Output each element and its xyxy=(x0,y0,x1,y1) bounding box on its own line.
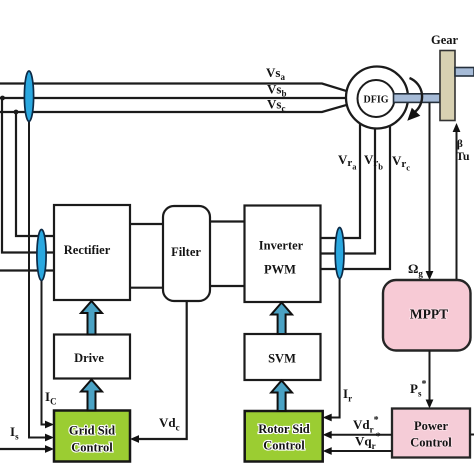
svg-text:Drive: Drive xyxy=(74,351,104,365)
gear box xyxy=(440,51,455,121)
wire phase b drop to rectifier input 2 xyxy=(2,98,54,253)
rectifier box xyxy=(54,205,130,300)
svg-text:DFIG: DFIG xyxy=(364,95,389,106)
rotor side control box xyxy=(245,411,323,462)
power control box xyxy=(392,409,470,458)
SVM box xyxy=(245,334,321,380)
junction dot phase b tap xyxy=(0,96,5,101)
wire rotor phase c from inverter xyxy=(321,109,391,270)
wire stator phase c (Vsc) xyxy=(0,105,347,112)
arrowhead Vdr* xyxy=(323,431,332,439)
wire Ps* from MPPT to Power Control xyxy=(429,351,431,402)
block arrow SVM to Inverter PWM xyxy=(271,303,292,335)
wire Vqr* from Power Control to Rotor Side Control xyxy=(330,450,392,452)
svg-text:Inverter: Inverter xyxy=(259,239,304,253)
svg-text:Control: Control xyxy=(263,439,305,453)
sensor ellipse stator current (Is transducer) xyxy=(24,71,33,121)
arrowhead omega g into MPPT xyxy=(426,271,434,280)
wire dc link rectifier-filter top xyxy=(130,223,163,225)
junction dot rotor b xyxy=(373,114,378,119)
arrowhead Ir into Rotor Side Control xyxy=(323,414,332,422)
sensor ellipse rotor current (Ir transducer) xyxy=(335,228,344,279)
svg-text:PWM: PWM xyxy=(264,263,296,277)
arrowhead Ps* into Power Control xyxy=(426,400,434,409)
wire rectifier input 3 from left edge xyxy=(0,269,54,271)
arrowhead third input xyxy=(45,445,54,453)
block arrow Drive to Rectifier xyxy=(81,301,102,335)
svg-text:Rotor Sid: Rotor Sid xyxy=(258,422,310,436)
DFIG outer circle (stator) xyxy=(346,67,408,129)
wire rotor phase b from inverter xyxy=(321,117,376,254)
arrowhead Is into Grid Side Control xyxy=(45,434,54,442)
wire Vdr* from Power Control to Rotor Side Control xyxy=(330,434,392,436)
wire third input into Grid Side Control from left edge xyxy=(0,448,47,450)
wire Ir sensing line from rotor sensor down to Rotor Side Control xyxy=(330,269,340,418)
wire dc link filter-inverter top xyxy=(210,220,245,222)
wire dc link rectifier-filter bottom xyxy=(130,287,163,289)
svg-text:SVM: SVM xyxy=(268,352,296,366)
block arrow Rotor Side Control to SVM xyxy=(271,381,292,412)
svg-text:Filter: Filter xyxy=(171,245,201,259)
junction dot rotor c xyxy=(388,107,393,112)
wire stub power control output right edge xyxy=(470,434,474,436)
svg-text:Control: Control xyxy=(71,441,113,455)
wire dc link filter-inverter bottom xyxy=(210,285,245,287)
shaft gear to turbine (output, right edge) xyxy=(455,68,474,77)
filter box xyxy=(163,206,210,301)
arrowhead IC into Grid Side Control xyxy=(45,421,54,429)
drive box xyxy=(54,335,130,379)
svg-text:Tu: Tu xyxy=(456,149,470,163)
grid side control box xyxy=(54,411,130,462)
arrowhead Vqr* xyxy=(323,447,332,455)
wire stator phase b (Vsb) xyxy=(0,97,346,99)
DFIG inner circle (rotor) xyxy=(358,80,395,117)
wire speed measurement (omega g) from shaft down to MPPT xyxy=(429,103,431,274)
junction dot phase c tap xyxy=(14,110,19,115)
svg-text:MPPT: MPPT xyxy=(410,307,448,322)
svg-text:Gear: Gear xyxy=(431,33,459,47)
MPPT box xyxy=(383,280,471,351)
svg-text:Power: Power xyxy=(414,419,448,433)
wire Vdc from filter bottom to Grid Side Control xyxy=(137,301,187,439)
arrowhead Vdc into Grid Side Control xyxy=(130,435,139,443)
block arrow Grid Side Control to Drive xyxy=(81,380,102,411)
rotation arrow around DFIG shaft xyxy=(410,78,423,113)
sensor ellipse converter current (IC transducer) xyxy=(37,230,46,281)
junction dot rotor a xyxy=(358,108,363,113)
svg-text:Rectifier: Rectifier xyxy=(64,243,111,257)
wire stator phase a (top line Vsa) xyxy=(0,84,347,92)
inverter PWM box xyxy=(245,206,321,303)
shaft DFIG to gear xyxy=(394,94,441,103)
svg-text:Grid Sid: Grid Sid xyxy=(69,424,115,438)
wire pitch command (beta) from MPPT up to turbine xyxy=(456,130,458,280)
wire IC sensing line from converter sensor down to Grid Side Control xyxy=(42,236,48,425)
wire phase c drop to rectifier input 1 xyxy=(16,112,54,236)
wire Is sensing line from stator sensor down to Grid Side Control xyxy=(29,84,47,438)
wire rotor phase a from inverter xyxy=(321,109,361,238)
svg-text:Control: Control xyxy=(410,436,452,450)
arrowhead beta up to turbine xyxy=(453,123,461,132)
